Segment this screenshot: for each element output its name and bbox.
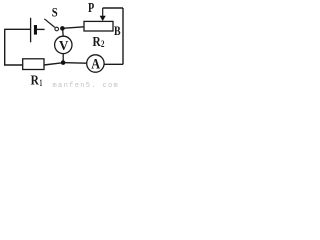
svg-text:1: 1: [40, 78, 43, 88]
svg-text:2: 2: [101, 39, 105, 49]
ammeter A: [87, 55, 104, 72]
svg-text:A: A: [91, 57, 100, 73]
switch S lever: [44, 19, 55, 28]
wire node to R2: [64, 27, 84, 28]
node junction dot top: [60, 26, 65, 31]
rheostat R2 body: [84, 21, 113, 31]
switch terminal circle: [55, 27, 59, 31]
voltmeter stub top: [62, 29, 65, 37]
svg-text:S: S: [52, 6, 58, 20]
wire bottom-right to ammeter: [104, 63, 123, 65]
svg-text:V: V: [59, 38, 69, 53]
voltmeter V: [55, 36, 72, 53]
wire right vertical: [122, 8, 124, 64]
rheostat slider arrow P: [102, 8, 104, 17]
wire left vertical + bottom-left: [5, 29, 23, 65]
svg-text:B: B: [114, 23, 121, 38]
node junction dot bottom: [61, 60, 66, 65]
svg-text:P: P: [88, 0, 94, 15]
battery short plate: [34, 25, 37, 35]
svg-text:manfen5. com: manfen5. com: [53, 82, 120, 90]
wire ammeter to node: [65, 62, 87, 65]
resistor R1 body: [23, 59, 44, 70]
svg-text:R: R: [31, 74, 40, 89]
wire top-left to battery: [4, 28, 30, 30]
battery long plate: [30, 18, 32, 43]
wire battery to switch: [37, 28, 45, 30]
voltmeter stub bottom: [62, 54, 64, 61]
wire node to R1: [44, 63, 61, 65]
wire top rail: [103, 7, 123, 9]
